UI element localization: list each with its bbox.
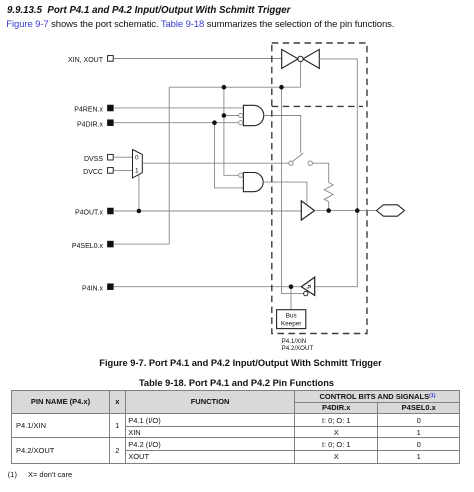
junction (223.9,87.2) <box>222 85 227 90</box>
wire Schmitt output to P4IN <box>113 286 301 288</box>
junction (214.5,122.7) <box>212 120 217 125</box>
oscillator gate (bowtie) left triangle <box>282 49 298 68</box>
node P4OUT.x label <box>75 208 113 217</box>
bus keeper block <box>277 310 306 329</box>
wire P4REN to AND1 top input <box>113 107 243 109</box>
switch contact circle left <box>289 161 293 165</box>
and-gate U2 (SEL/DIR output enable) <box>243 173 263 192</box>
junction (281.5,87.2) <box>279 85 284 90</box>
resistor R pull <box>324 183 333 211</box>
node P4IN.x label <box>82 284 113 293</box>
pin functions table <box>11 390 460 464</box>
wire SEL branch to AND1 middle bubble and AND2 top bubble <box>224 87 239 175</box>
svg-text:Bus: Bus <box>286 312 297 319</box>
body paragraph <box>6 19 394 30</box>
schmitt enable bubble <box>304 291 308 295</box>
wire mux output to pull switch <box>142 162 288 164</box>
node XIN, XOUT label <box>68 56 113 64</box>
and-gate U1 (REN/SEL/DIR) <box>243 105 263 125</box>
oscillator enable circle <box>298 56 303 61</box>
wire DVCC to mux input 1 <box>113 169 132 171</box>
svg-text:P4REN.x: P4REN.x <box>74 107 103 114</box>
junction (328.7,210.6) <box>326 208 331 213</box>
wire oscillator output to pad line <box>315 59 358 287</box>
svg-text:DVCC: DVCC <box>83 169 103 176</box>
wire buffer output to pad <box>315 210 377 212</box>
svg-text:P4DIR.x: P4DIR.x <box>77 121 104 128</box>
node P4SEL0.x label <box>72 241 113 250</box>
switch contact circle right <box>308 161 312 165</box>
table title <box>0 378 473 388</box>
mux DVSS/DVCC selector <box>133 150 143 178</box>
wire XIN,XOUT to oscillator <box>113 58 282 60</box>
node P4REN.x label <box>74 105 113 113</box>
wire bus keeper tap <box>290 287 292 310</box>
svg-text:DVSS: DVSS <box>84 156 103 163</box>
node DVCC label <box>83 168 113 177</box>
wire U1 output to pull switch lever <box>264 116 301 154</box>
svg-text:P4OUT.x: P4OUT.x <box>75 210 104 217</box>
wire P4DIR to AND1 bottom bubble, branch down to AND2 bottom input <box>113 123 243 188</box>
schmitt trigger input buffer <box>301 277 314 295</box>
pad name label P4.1/XIN P4.2/XOUT <box>282 338 314 352</box>
svg-text:1: 1 <box>135 168 139 175</box>
wire DVSS to mux input 0 <box>113 156 132 158</box>
svg-text:P4.2/XOUT: P4.2/XOUT <box>282 345 314 352</box>
bubble U1 middle input <box>239 113 243 117</box>
node P4DIR.x label <box>77 120 113 128</box>
dashed oscillator section divider <box>272 105 363 107</box>
output buffer driver <box>301 201 314 220</box>
footnote <box>8 470 72 479</box>
junction (223.9,115.5) <box>222 113 227 118</box>
oscillator gate (bowtie) right triangle <box>303 49 319 68</box>
svg-text:P4.1/XIN: P4.1/XIN <box>282 338 307 345</box>
svg-text:P4IN.x: P4IN.x <box>82 285 104 292</box>
bubble U1 bottom input <box>239 121 243 125</box>
figure caption <box>0 358 474 368</box>
wire switch to pull resistor <box>312 163 328 182</box>
pad pin hexagon <box>377 205 405 216</box>
junction (291,286.7) <box>289 284 294 289</box>
wire P4SEL0 riser up and along top <box>113 62 300 244</box>
wire SEL enable down to Schmitt enable bubble <box>282 87 304 293</box>
svg-text:XIN, XOUT: XIN, XOUT <box>68 57 104 64</box>
wire U2 output to buffer enable <box>263 182 307 204</box>
dashed pad module box <box>272 43 367 334</box>
bubble U2 top input <box>239 173 243 177</box>
schmitt hysteresis glyph <box>307 285 311 288</box>
heading 9.9.13.5 <box>7 5 290 16</box>
junction (357.3,210.6) <box>355 208 360 213</box>
svg-text:0: 0 <box>135 155 139 162</box>
wire P4OUT to output buffer input <box>113 210 301 212</box>
wire mux select from P4OUT <box>138 175 140 211</box>
junction (138.9,211) <box>137 209 142 214</box>
svg-text:Keeper: Keeper <box>281 320 301 327</box>
node DVSS label <box>84 154 113 163</box>
svg-text:P4SEL0.x: P4SEL0.x <box>72 243 104 250</box>
pull enable switch lever <box>293 153 304 161</box>
